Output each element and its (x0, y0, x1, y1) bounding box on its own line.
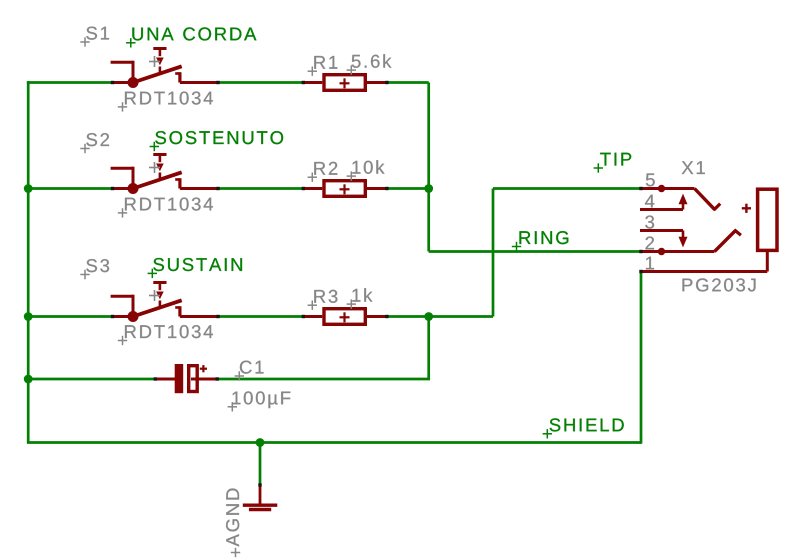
label R2 name (308, 162, 338, 182)
connector X1 pin 1 (sleeve) (639, 252, 767, 273)
label R3 value 1k (347, 288, 373, 309)
label R2 value 10k (347, 160, 385, 181)
wire S2 row left segment (27, 187, 113, 190)
wire vertical from R1 output down to RING turn (427, 83, 430, 252)
resistor R2 body (302, 181, 389, 197)
junction R2 output joins vertical (424, 184, 433, 193)
label X1 value PG203J (683, 278, 756, 291)
net label SHIELD (543, 418, 624, 438)
wire S1 row right segment (resistor to vertical) (387, 81, 429, 84)
label C1 value 100uF (228, 391, 291, 411)
wire pin1 drop to SHIELD row (640, 272, 643, 444)
wire S2 row right segment (resistor to vertical) (387, 187, 429, 190)
switch S2 (pushbutton RDT1034) (111, 155, 220, 195)
junction on left bus at S3 row (24, 312, 33, 321)
label RDT1034 value of S2 (118, 198, 213, 218)
wire TIP vertical riser (492, 189, 495, 317)
label S3 name (80, 259, 109, 279)
connector X1 polarity cross (742, 204, 751, 213)
ground AGND symbol (243, 483, 277, 509)
connector X1 pin 2 (ring contact) (639, 230, 741, 255)
pin number 4 (645, 195, 654, 208)
label R3 name (308, 290, 338, 310)
net label RING (512, 231, 569, 251)
net label SUSTAIN (148, 258, 242, 278)
label X1 name (682, 161, 705, 174)
wire SHIELD row horizontal (27, 441, 641, 444)
pin number 2 (646, 237, 655, 250)
wire S3 row left segment (27, 315, 113, 318)
wire TIP horizontal to connector pin 5 (493, 187, 642, 190)
label S2 name (80, 133, 109, 153)
junction on left bus at S2 row (24, 184, 33, 193)
pin number 5 (646, 174, 655, 187)
label RDT1034 value of S3 (118, 325, 213, 345)
capacitor C1 (polarized) (154, 364, 219, 393)
wire S3 row right segment (resistor to vertical) (387, 315, 429, 318)
resistor R1 body (302, 75, 389, 91)
pin number 3 (645, 216, 654, 229)
resistor R3 body (302, 309, 389, 325)
switch S1 (pushbutton RDT1034) (111, 49, 220, 89)
label AGND (rotated) (226, 489, 240, 558)
label RDT1034 value of S1 (118, 92, 213, 112)
wire SHIELD net left bus vertical (27, 81, 30, 442)
wire AGND stub (259, 443, 262, 485)
wire S3 row middle segment (switch to resistor) (218, 315, 305, 318)
wire S2 row middle segment (switch to resistor) (218, 187, 305, 190)
wire vertical TIP node down to C1 row (427, 317, 430, 380)
junction R3 output / TIP node (424, 312, 433, 321)
wire RING horizontal to connector pin 2 (429, 250, 642, 253)
label S1 name (80, 27, 109, 47)
junction on left bus at C1 row (24, 375, 33, 384)
wire S1 row middle segment (switch to resistor) (218, 81, 305, 84)
connector X1 pin 3 (ring switch arrow down) (640, 231, 688, 248)
connector X1 body (jack sleeve rectangle) (758, 189, 777, 250)
wire S1 row left segment (27, 81, 113, 84)
label R1 name (308, 56, 338, 76)
net label TIP (594, 153, 632, 173)
label R1 value 5.6k (347, 54, 392, 75)
connector X1 pin 4 (tip switch arrow up) (640, 194, 688, 210)
net label UNA CORDA (126, 27, 256, 47)
net label SOSTENUTO (150, 131, 284, 151)
wire TIP leg horizontal (429, 315, 493, 318)
pin number 1 (646, 257, 654, 270)
label C1 name (235, 361, 264, 381)
switch S3 (pushbutton RDT1034) (111, 283, 220, 323)
connector X1 pin 5 (tip contact) (639, 185, 720, 210)
junction AGND tap on SHIELD row (256, 438, 265, 447)
wire C1 row right segment (217, 378, 430, 381)
wire C1 row left segment (27, 378, 156, 381)
